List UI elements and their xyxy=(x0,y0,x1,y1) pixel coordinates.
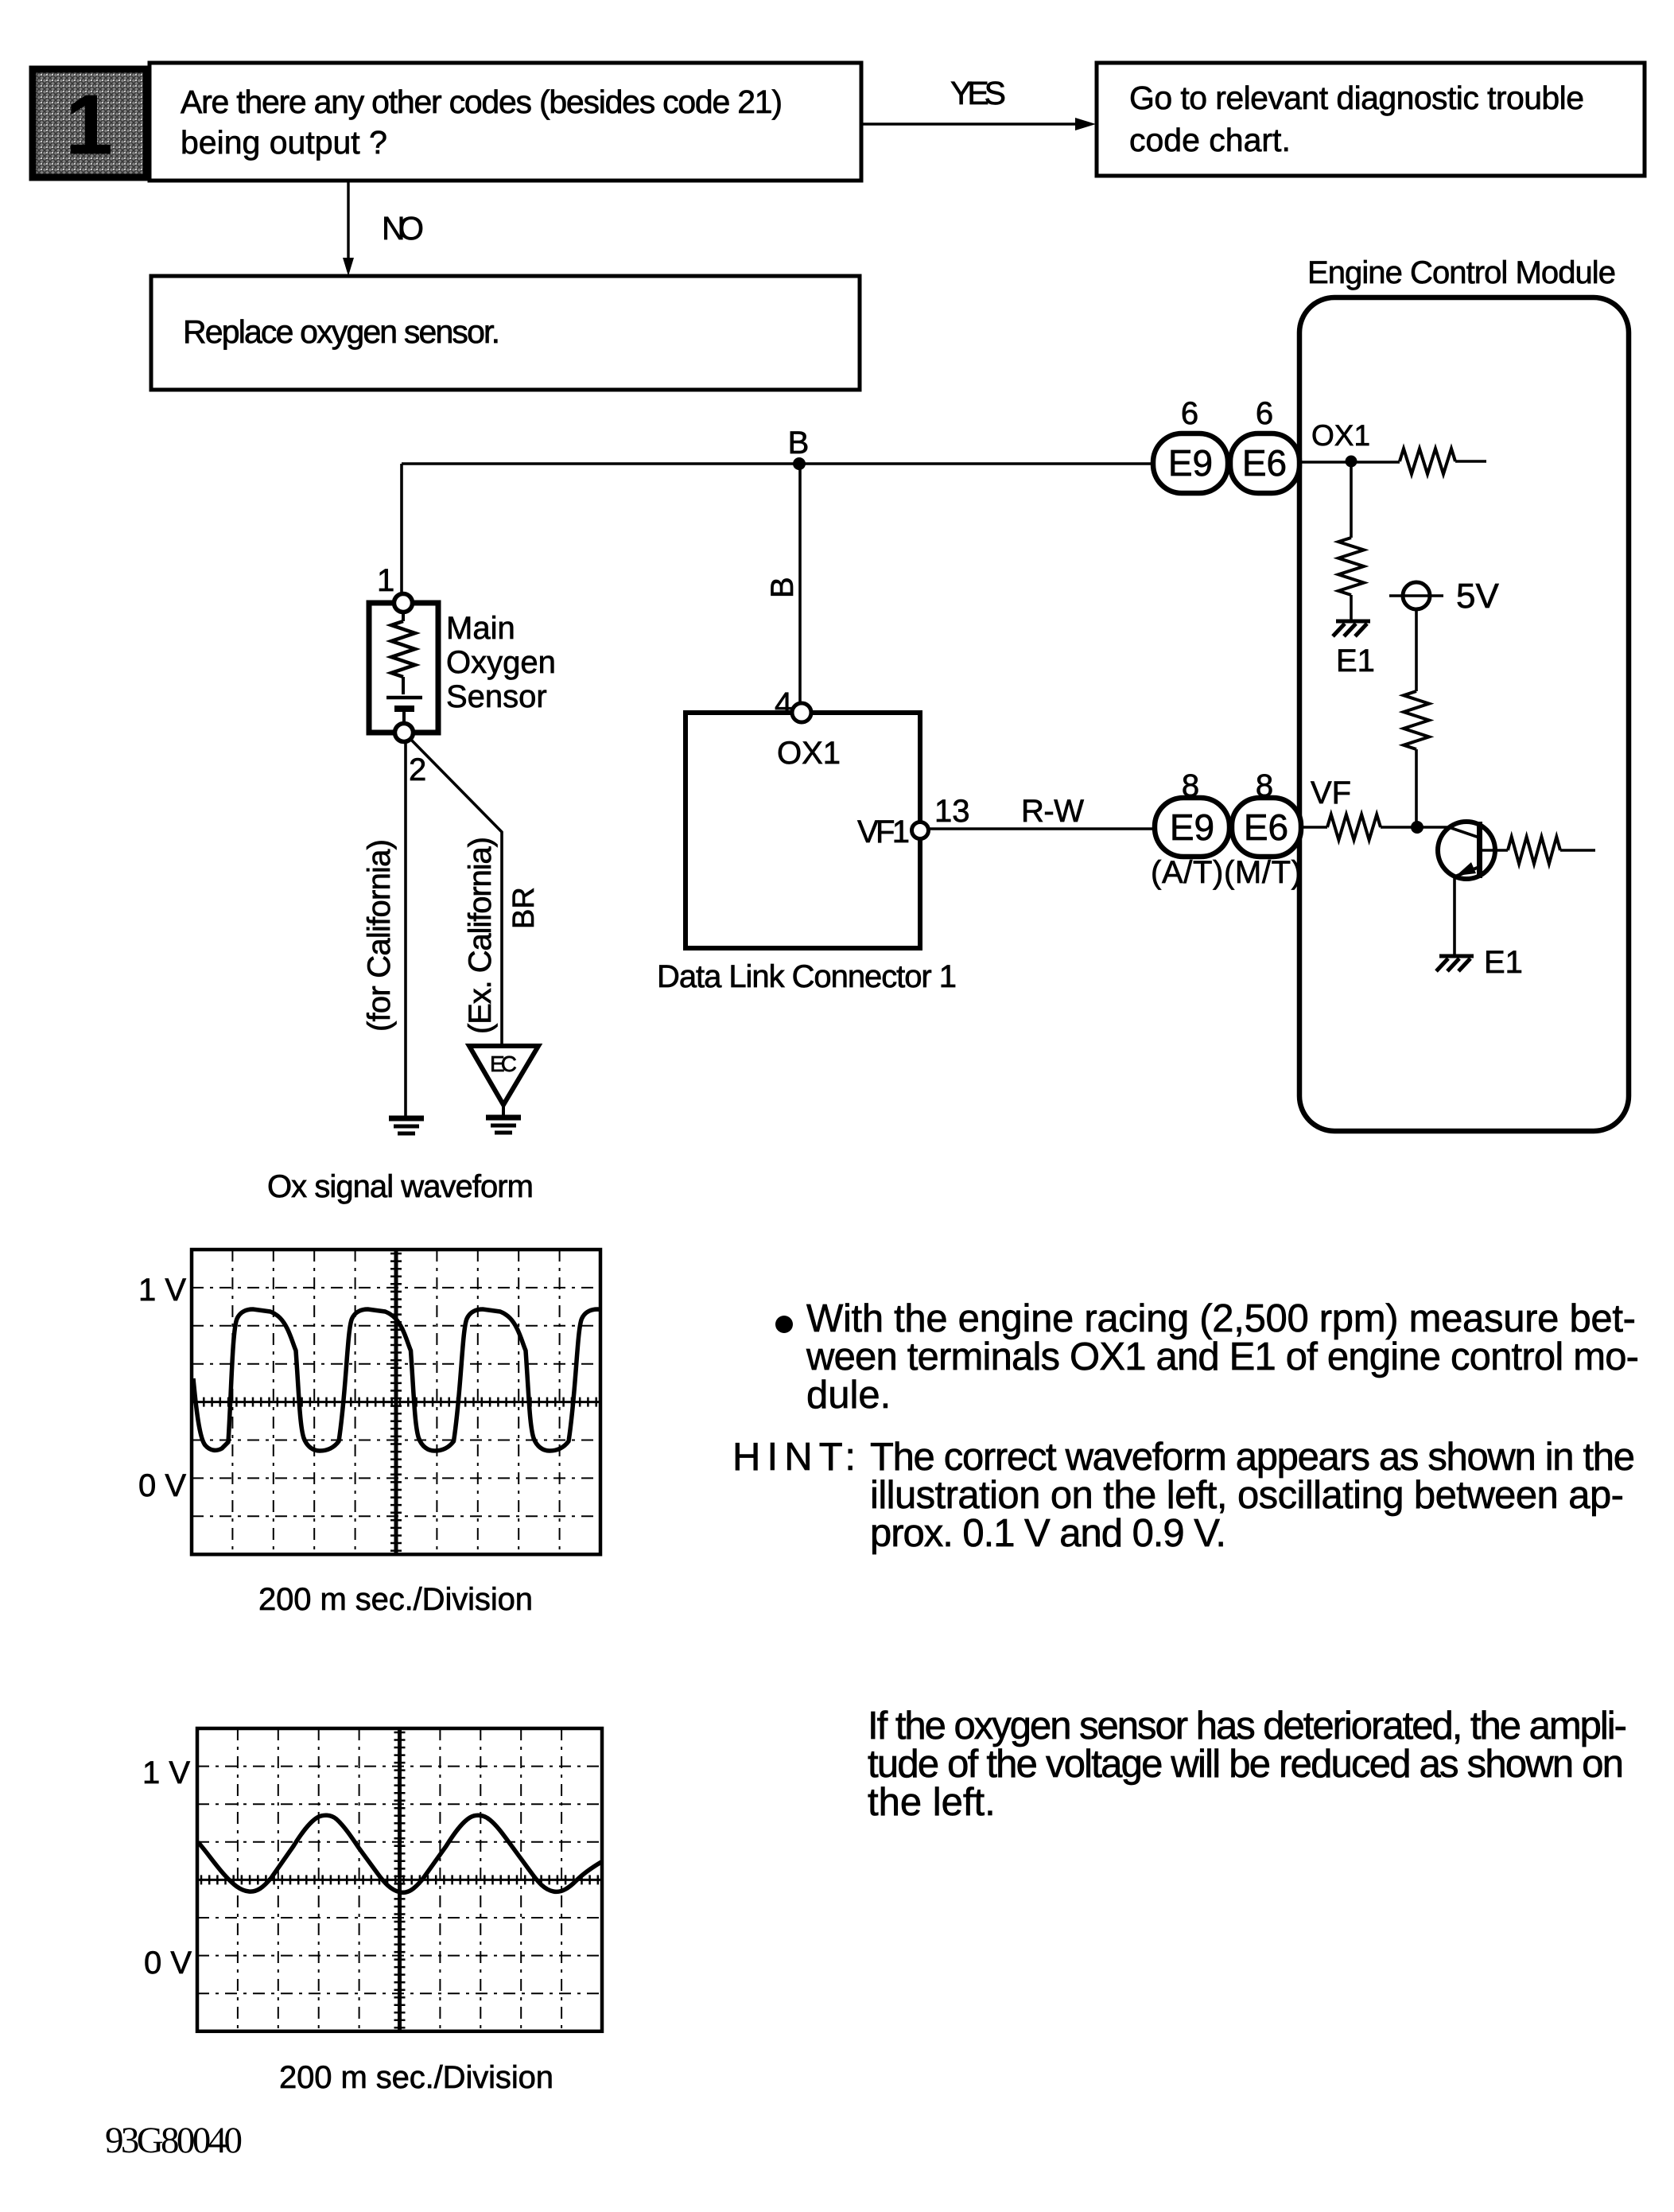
svg-text:dule.: dule. xyxy=(806,1374,891,1417)
connector E9 (pin 8) xyxy=(1155,798,1229,857)
YES arrow xyxy=(861,122,1077,125)
oscilloscope grid 1 xyxy=(192,1250,600,1554)
svg-text:(Ex. California): (Ex. California) xyxy=(463,837,498,1034)
svg-text:YES: YES xyxy=(950,75,1006,111)
svg-text:OX1: OX1 xyxy=(777,736,841,771)
svg-text:the left.: the left. xyxy=(868,1781,996,1824)
wire: drop to sensor pin 1 xyxy=(400,464,403,595)
5V supply symbol xyxy=(1389,594,1443,597)
ECM box xyxy=(1299,297,1629,1131)
svg-text:B: B xyxy=(788,426,810,461)
svg-text:1: 1 xyxy=(66,78,113,172)
base lead diagonal xyxy=(1449,827,1479,838)
svg-text:Sensor: Sensor xyxy=(446,679,547,714)
svg-text:200 m sec./Division: 200 m sec./Division xyxy=(279,2060,553,2095)
sensor internal battery cell xyxy=(386,696,422,700)
svg-text:8: 8 xyxy=(1182,768,1199,803)
emitter wire down xyxy=(1453,877,1456,954)
svg-text:200 m sec./Division: 200 m sec./Division xyxy=(258,1582,533,1617)
svg-text:1 V: 1 V xyxy=(138,1273,186,1308)
wire: pin2 down (for California) xyxy=(404,742,407,1116)
svg-text:Are there any other codes (bes: Are there any other codes (besides code … xyxy=(181,84,783,120)
EC body ground triangle xyxy=(469,1046,538,1105)
sensor pin 1 xyxy=(394,594,413,612)
svg-text:tude of the voltage will be re: tude of the voltage will be reduced as s… xyxy=(868,1743,1624,1786)
svg-text:illustration on the left, osci: illustration on the left, oscillating be… xyxy=(870,1474,1624,1517)
svg-text:VF: VF xyxy=(1311,776,1351,811)
VF series resistor xyxy=(1327,814,1381,840)
svg-text:8: 8 xyxy=(1256,768,1273,803)
wire E6 to VF resistor xyxy=(1301,826,1327,829)
DLC pin 13 / VF1 xyxy=(912,822,929,839)
connector E6 (pin 8) xyxy=(1232,798,1301,857)
svg-text:R-W: R-W xyxy=(1021,794,1084,829)
svg-text:VF1: VF1 xyxy=(857,814,910,849)
svg-text:Data Link Connector 1: Data Link Connector 1 xyxy=(657,959,957,994)
DLC pin 4 xyxy=(792,703,811,722)
svg-text:ween terminals OX1 and E1 of e: ween terminals OX1 and E1 of engine cont… xyxy=(806,1335,1639,1378)
collector resistor xyxy=(1508,837,1560,864)
ground E1 (upper) xyxy=(1336,620,1370,624)
svg-text:being output ?: being output ? xyxy=(181,124,387,161)
svg-text:code chart.: code chart. xyxy=(1129,122,1291,158)
sensor internal resistor xyxy=(402,612,405,621)
svg-text:Ox signal waveform: Ox signal waveform xyxy=(267,1169,534,1204)
svg-text:(A/T)(M/T): (A/T)(M/T) xyxy=(1151,855,1302,890)
Data Link Connector 1 box xyxy=(686,713,920,948)
flowchart box: go to chart xyxy=(1097,63,1645,176)
svg-text:Main: Main xyxy=(446,611,515,646)
waveform 2 (deteriorated sensor) xyxy=(198,1815,601,1892)
flowchart box: question xyxy=(150,63,861,181)
wire VF1 to E9 xyxy=(929,827,1155,830)
svg-text:If the oxygen sensor has deter: If the oxygen sensor has deteriorated, t… xyxy=(868,1705,1627,1747)
svg-text:B: B xyxy=(765,577,800,598)
svg-text:1: 1 xyxy=(377,563,394,598)
wire E6 to OX1 junction xyxy=(1299,461,1400,464)
OX1 junction dot xyxy=(1346,456,1357,468)
svg-text:OX1: OX1 xyxy=(1311,419,1370,452)
svg-text:Engine Control Module: Engine Control Module xyxy=(1307,255,1616,290)
node B junction dot xyxy=(793,457,806,470)
svg-text:The correct waveform appears a: The correct waveform appears as shown in… xyxy=(870,1436,1635,1479)
svg-text:5V: 5V xyxy=(1456,577,1499,616)
NO arrow xyxy=(347,181,349,262)
svg-text:4: 4 xyxy=(775,686,792,721)
bullet point xyxy=(775,1316,793,1333)
svg-text:BR: BR xyxy=(507,887,541,929)
wire: B vertical to DLC pin 4 xyxy=(798,464,802,705)
connector E6 (pin 6) xyxy=(1230,433,1299,493)
step number badge 1 xyxy=(33,69,146,177)
resistor right of OX1 xyxy=(1400,449,1455,474)
chassis ground (EC) xyxy=(486,1115,521,1121)
svg-text:93G80040: 93G80040 xyxy=(105,2120,243,2161)
svg-text:E6: E6 xyxy=(1244,807,1288,848)
svg-text:HINT:: HINT: xyxy=(732,1436,856,1479)
pull-down resistor xyxy=(1338,538,1364,595)
transistor Q (PNP) xyxy=(1438,822,1508,879)
svg-text:E1: E1 xyxy=(1484,945,1523,980)
connector E9 (pin 6) xyxy=(1153,433,1228,493)
wire: B net horizontal xyxy=(402,462,1153,465)
ground E1 (lower) xyxy=(1439,954,1474,958)
svg-text:Oxygen: Oxygen xyxy=(446,645,556,680)
sensor pin 2 xyxy=(395,724,414,742)
svg-text:E9: E9 xyxy=(1168,442,1213,484)
series resistor from 5V xyxy=(1404,691,1429,749)
svg-text:Replace oxygen sensor.: Replace oxygen sensor. xyxy=(183,313,500,350)
svg-text:(for California): (for California) xyxy=(362,839,397,1032)
wire 5V down xyxy=(1415,609,1418,691)
svg-text:2: 2 xyxy=(409,752,426,787)
flowchart box: replace sensor xyxy=(151,276,860,390)
main oxygen sensor box xyxy=(369,603,438,733)
svg-text:E9: E9 xyxy=(1170,807,1214,848)
svg-text:Go to relevant diagnostic trou: Go to relevant diagnostic trouble xyxy=(1129,80,1584,116)
chassis ground (for California) xyxy=(389,1116,424,1122)
svg-text:0 V: 0 V xyxy=(138,1468,186,1503)
svg-text:6: 6 xyxy=(1256,396,1273,431)
svg-text:E6: E6 xyxy=(1242,442,1287,484)
VF junction dot xyxy=(1411,821,1423,834)
svg-text:13: 13 xyxy=(934,794,970,829)
wire: pin2 diagonal to EC branch xyxy=(410,739,502,1044)
waveform 1 (good sensor) xyxy=(193,1309,684,1451)
svg-text:prox. 0.1 V and 0.9 V.: prox. 0.1 V and 0.9 V. xyxy=(870,1512,1226,1555)
wire OX1 junction down to pull resistor xyxy=(1350,461,1353,538)
svg-text:1 V: 1 V xyxy=(142,1755,190,1790)
oscilloscope grid 2 xyxy=(197,1728,602,2031)
svg-text:EC: EC xyxy=(490,1052,517,1076)
svg-text:6: 6 xyxy=(1181,396,1198,431)
svg-text:0 V: 0 V xyxy=(144,1946,192,1981)
svg-text:With the engine racing (2,500: With the engine racing (2,500 rpm) measu… xyxy=(806,1297,1636,1340)
svg-text:E1: E1 xyxy=(1336,643,1375,678)
svg-text:NO: NO xyxy=(382,210,424,247)
